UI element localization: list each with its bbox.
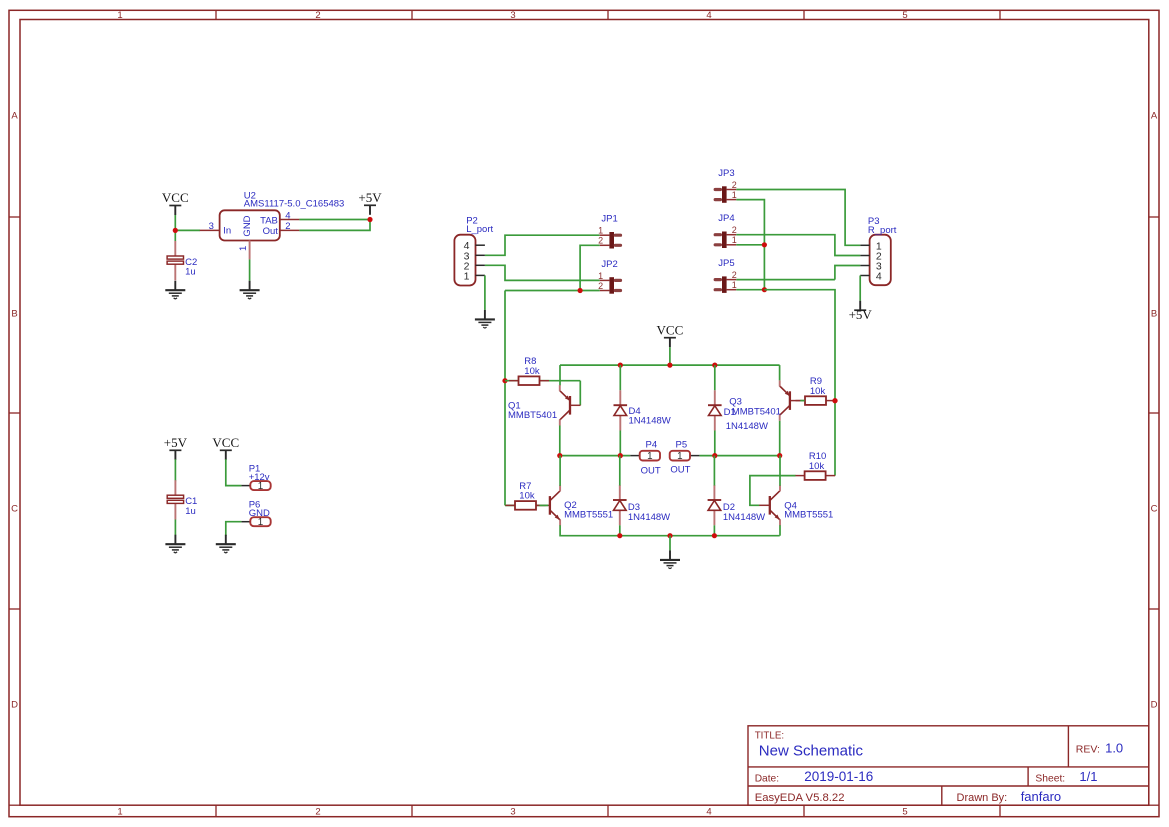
svg-text:1/1: 1/1 bbox=[1079, 769, 1097, 784]
svg-text:1: 1 bbox=[464, 270, 470, 282]
wire C1 to ground bbox=[174, 520, 176, 536]
svg-text:VCC: VCC bbox=[212, 435, 239, 450]
svg-text:4: 4 bbox=[285, 210, 290, 221]
svg-text:1: 1 bbox=[598, 271, 603, 281]
jumper JP4 bbox=[715, 213, 737, 248]
wire Q2 emitter / bottom rail bbox=[560, 525, 780, 536]
ground (bridge) bbox=[660, 550, 680, 568]
svg-text:TITLE:: TITLE: bbox=[755, 730, 784, 741]
svg-text:1u: 1u bbox=[185, 267, 196, 278]
svg-text:1N4148W: 1N4148W bbox=[726, 421, 768, 432]
svg-text:A: A bbox=[11, 111, 18, 122]
junction bbox=[762, 287, 767, 292]
transistor Q4 MMBT5551 (NPN) bbox=[759, 485, 780, 525]
jumper JP1 bbox=[598, 214, 620, 249]
wire rail to D4 bbox=[619, 365, 621, 390]
junction bbox=[618, 363, 623, 368]
svg-text:D: D bbox=[11, 700, 18, 711]
wire VCC flag to node bbox=[174, 215, 176, 230]
junction bbox=[502, 378, 507, 383]
svg-text:GND: GND bbox=[242, 215, 253, 236]
svg-text:2: 2 bbox=[598, 236, 603, 246]
wire JP4.2 to P3.2 bbox=[736, 235, 860, 256]
wire U2 GND to ground bbox=[249, 259, 251, 280]
svg-text:1: 1 bbox=[732, 280, 737, 290]
svg-text:+5V: +5V bbox=[164, 435, 188, 450]
wire Q1 emitter bbox=[559, 365, 561, 385]
wire Q4 collector to OUT node bbox=[779, 456, 781, 486]
wire Q3 collector to OUT node bbox=[779, 421, 781, 456]
svg-text:Sheet:: Sheet: bbox=[1035, 773, 1065, 784]
svg-text:1N4148W: 1N4148W bbox=[723, 512, 765, 523]
svg-text:In: In bbox=[223, 225, 231, 236]
resistor R9 bbox=[796, 376, 836, 405]
junction bbox=[557, 453, 562, 458]
svg-text:2: 2 bbox=[315, 10, 320, 21]
svg-text:B: B bbox=[1151, 309, 1157, 320]
svg-text:D: D bbox=[1151, 700, 1158, 711]
svg-text:Drawn By:: Drawn By: bbox=[957, 792, 1008, 804]
wire P3.3 to JP5.2 bbox=[835, 266, 860, 280]
wire elbow to Q1 base bbox=[579, 381, 581, 406]
junction bbox=[618, 453, 623, 458]
ground (U2) bbox=[240, 281, 260, 299]
wire top rail bbox=[560, 364, 780, 366]
wire R8 row bbox=[505, 380, 580, 382]
power flag +5V (P3) bbox=[849, 301, 873, 322]
svg-text:1: 1 bbox=[117, 10, 122, 21]
power flag VCC bbox=[162, 190, 189, 215]
svg-text:C: C bbox=[11, 504, 18, 515]
connector P3 R_port bbox=[860, 235, 891, 286]
svg-text:fanfaro: fanfaro bbox=[1021, 789, 1061, 804]
connector P5 OUT bbox=[670, 451, 700, 462]
wire R10 to Q4 base loop bbox=[750, 476, 796, 506]
wire U2 TAB to +5V node bbox=[299, 219, 370, 221]
ground (C2) bbox=[165, 281, 185, 299]
junction bbox=[777, 453, 782, 458]
wire P6 to ground bbox=[226, 522, 242, 536]
wire D4 to OUT row bbox=[619, 431, 621, 456]
wire JP4.1 to net bbox=[736, 244, 764, 246]
junction bbox=[578, 288, 583, 293]
junction bbox=[762, 242, 767, 247]
svg-text:1.0: 1.0 bbox=[1105, 741, 1123, 756]
svg-text:+12v: +12v bbox=[249, 472, 270, 483]
svg-text:1u: 1u bbox=[185, 506, 196, 517]
ground (P6) bbox=[216, 535, 236, 553]
svg-text:MMBT5551: MMBT5551 bbox=[784, 510, 833, 521]
wire JP3.1 down bbox=[736, 200, 764, 290]
wire JP5.2 right bbox=[736, 279, 835, 281]
power flag +5V bbox=[358, 190, 382, 215]
transistor Q2 MMBT5551 (NPN) bbox=[539, 485, 560, 525]
svg-text:JP1: JP1 bbox=[601, 214, 617, 225]
svg-text:3: 3 bbox=[510, 807, 515, 818]
svg-text:1: 1 bbox=[117, 807, 122, 818]
junction bbox=[712, 453, 717, 458]
svg-text:P4: P4 bbox=[646, 439, 658, 450]
svg-text:MMBT5401: MMBT5401 bbox=[732, 407, 781, 418]
wire D3 to bottom rail bbox=[619, 525, 621, 535]
title block bbox=[748, 726, 1149, 805]
svg-text:2: 2 bbox=[285, 221, 290, 232]
svg-text:OUT: OUT bbox=[641, 465, 661, 476]
ground (P2) bbox=[475, 310, 495, 328]
svg-text:VCC: VCC bbox=[657, 322, 684, 337]
svg-text:1N4148W: 1N4148W bbox=[628, 512, 670, 523]
svg-text:1: 1 bbox=[238, 246, 249, 251]
resistor R8 bbox=[509, 356, 549, 385]
svg-text:4: 4 bbox=[706, 10, 711, 21]
junction bbox=[173, 228, 178, 233]
power flag VCC (P1) bbox=[212, 435, 239, 460]
svg-text:L_port: L_port bbox=[466, 224, 493, 235]
svg-text:5: 5 bbox=[902, 10, 907, 21]
wire left rail bbox=[504, 291, 506, 506]
svg-text:2019-01-16: 2019-01-16 bbox=[804, 769, 873, 784]
wire right rail end bbox=[834, 475, 836, 477]
svg-text:10k: 10k bbox=[519, 491, 535, 502]
wire P2.2 to JP2.1 bbox=[485, 265, 600, 280]
connector P1 +12v bbox=[241, 464, 270, 492]
svg-text:10k: 10k bbox=[524, 366, 540, 377]
wire JP5.1 to net bbox=[736, 289, 764, 291]
svg-text:MMBT5551: MMBT5551 bbox=[564, 510, 613, 521]
wire OUT row right bbox=[699, 455, 779, 457]
svg-text:+5V: +5V bbox=[849, 307, 873, 322]
wire net to right rail bbox=[764, 290, 835, 476]
svg-text:10k: 10k bbox=[810, 386, 826, 397]
svg-text:REV:: REV: bbox=[1076, 743, 1100, 755]
wire R7 to Q2 base bbox=[539, 504, 548, 506]
svg-text:2: 2 bbox=[732, 225, 737, 235]
svg-text:1: 1 bbox=[732, 190, 737, 200]
svg-text:R_port: R_port bbox=[868, 225, 897, 236]
svg-text:2: 2 bbox=[732, 180, 737, 190]
svg-text:1: 1 bbox=[732, 235, 737, 245]
svg-text:3: 3 bbox=[510, 10, 515, 21]
wire P2.3 to JP1.1 bbox=[485, 235, 600, 255]
svg-text:JP2: JP2 bbox=[601, 259, 617, 270]
svg-text:A: A bbox=[1151, 111, 1158, 122]
junction bbox=[832, 398, 837, 403]
wire OUT row to D3 bbox=[619, 456, 621, 486]
svg-text:VCC: VCC bbox=[162, 190, 189, 205]
wire OUT row to D2 bbox=[713, 456, 715, 486]
svg-text:P5: P5 bbox=[676, 439, 688, 450]
wire JP2.2 row bbox=[505, 290, 600, 292]
svg-text:1: 1 bbox=[598, 226, 603, 236]
junction bbox=[617, 533, 622, 538]
svg-text:10k: 10k bbox=[809, 461, 825, 472]
wire Q1 collector to OUT node bbox=[559, 426, 561, 456]
diode D2 1N4148W bbox=[708, 485, 722, 525]
diode D1 1N4148W bbox=[708, 390, 722, 430]
svg-text:1: 1 bbox=[677, 451, 682, 462]
wire node to U2 pin 3 bbox=[175, 229, 200, 231]
svg-text:JP4: JP4 bbox=[718, 213, 734, 224]
svg-text:EasyEDA V5.8.22: EasyEDA V5.8.22 bbox=[755, 792, 845, 804]
wire Q2 collector to OUT node bbox=[559, 456, 561, 486]
wire rail to D1 bbox=[714, 365, 716, 390]
power flag +5V (C1) bbox=[164, 435, 188, 460]
junction bbox=[667, 533, 672, 538]
svg-text:C: C bbox=[1151, 504, 1158, 515]
svg-text:1N4148W: 1N4148W bbox=[629, 416, 671, 427]
wire JP1.2 down bbox=[580, 245, 600, 290]
transistor Q3 MMBT5401 (PNP) bbox=[780, 380, 801, 420]
svg-text:2: 2 bbox=[732, 270, 737, 280]
jumper JP3 bbox=[715, 168, 737, 203]
transistor Q1 MMBT5401 (PNP) bbox=[560, 385, 581, 425]
wire D1 to OUT row bbox=[714, 431, 716, 456]
connector P6 GND bbox=[241, 500, 270, 528]
wire D2 to bottom rail bbox=[713, 525, 715, 535]
diode D3 1N4148W bbox=[613, 485, 627, 525]
svg-text:+5V: +5V bbox=[358, 190, 382, 205]
U2 labels and pin numbers bbox=[209, 191, 345, 251]
svg-text:Date:: Date: bbox=[755, 773, 779, 784]
resistor R7 bbox=[506, 481, 546, 510]
svg-text:4: 4 bbox=[706, 807, 711, 818]
connector P2 L_port bbox=[454, 235, 485, 286]
jumper JP2 bbox=[598, 259, 620, 294]
wire Q3 emitter bbox=[779, 365, 781, 380]
svg-text:New Schematic: New Schematic bbox=[759, 743, 864, 760]
svg-text:AMS1117-5.0_C165483: AMS1117-5.0_C165483 bbox=[244, 199, 345, 210]
junction bbox=[832, 398, 837, 403]
svg-text:2: 2 bbox=[315, 807, 320, 818]
svg-text:OUT: OUT bbox=[670, 464, 690, 475]
svg-text:Out: Out bbox=[263, 226, 279, 237]
capacitor C2 bbox=[167, 241, 197, 280]
wire bottom rail to ground bbox=[669, 536, 671, 551]
junction bbox=[712, 533, 717, 538]
svg-text:GND: GND bbox=[249, 508, 270, 519]
jumper JP5 bbox=[715, 258, 737, 293]
junction bbox=[667, 363, 672, 368]
svg-text:JP3: JP3 bbox=[718, 168, 734, 179]
resistor R10 bbox=[795, 451, 835, 480]
svg-text:MMBT5401: MMBT5401 bbox=[508, 410, 557, 421]
svg-text:3: 3 bbox=[209, 221, 214, 232]
svg-text:B: B bbox=[11, 309, 17, 320]
wire OUT row left bbox=[560, 455, 631, 457]
power flag VCC (bridge) bbox=[657, 322, 684, 347]
junction bbox=[712, 363, 717, 368]
wire P3.4 to +5V flag bbox=[859, 276, 861, 301]
svg-text:TAB: TAB bbox=[260, 215, 278, 226]
connector P4 OUT bbox=[630, 451, 660, 462]
wire +5V flag to C1 bbox=[174, 459, 176, 481]
wire Q4 emitter to bottom rail bbox=[779, 525, 781, 536]
junction bbox=[367, 217, 372, 222]
svg-text:4: 4 bbox=[876, 271, 882, 283]
wire VCC flag to P1 bbox=[226, 459, 242, 485]
wire VCC to top rail bbox=[669, 347, 671, 365]
ground (C1) bbox=[165, 535, 185, 553]
wire node to C2 bbox=[174, 230, 176, 241]
wire P2.1 to ground bbox=[484, 275, 486, 310]
svg-text:2: 2 bbox=[598, 281, 603, 291]
wire U2 Out to +5V node bbox=[299, 220, 370, 231]
wire Q3 base to R9 bbox=[800, 400, 804, 402]
wire JP3.2 to P3.1 bbox=[736, 190, 860, 246]
svg-text:1: 1 bbox=[647, 451, 652, 462]
capacitor C1 bbox=[167, 480, 197, 519]
regulator U2 AMS1117-5.0 bbox=[200, 210, 300, 259]
diode D4 1N4148W bbox=[614, 390, 628, 430]
svg-text:5: 5 bbox=[902, 807, 907, 818]
svg-text:JP5: JP5 bbox=[718, 258, 734, 269]
wire rail corner to R7/Q2 base bbox=[505, 504, 540, 506]
